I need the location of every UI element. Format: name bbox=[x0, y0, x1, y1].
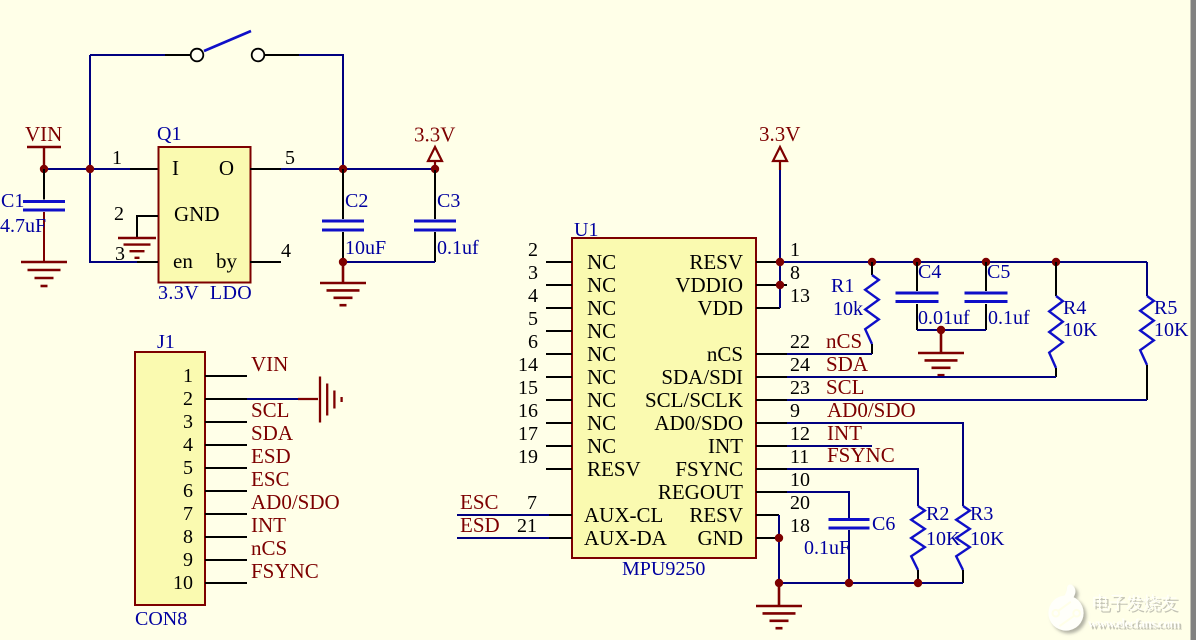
wire: left riser from switch to en pin bbox=[90, 55, 137, 262]
J1 pin 2 stub bbox=[205, 398, 247, 400]
U1 pin 6 stub bbox=[546, 353, 572, 355]
wire to 3.3V bbox=[343, 168, 435, 170]
svg-text:NC: NC bbox=[587, 319, 616, 343]
junction pin18 bbox=[775, 534, 783, 542]
svg-text:SCL/SCLK: SCL/SCLK bbox=[645, 388, 743, 412]
ground under C1 bbox=[21, 262, 67, 286]
svg-text:NC: NC bbox=[587, 388, 616, 412]
capacitor C4 bottom pin bbox=[916, 304, 918, 330]
capacitor C5 bottom pin bbox=[985, 304, 987, 330]
U1 pin 11 stub bbox=[756, 468, 787, 470]
svg-text:INT: INT bbox=[708, 434, 743, 458]
svg-text:1: 1 bbox=[112, 147, 122, 169]
svg-text:nCS: nCS bbox=[826, 329, 862, 353]
svg-text:VIN: VIN bbox=[25, 122, 62, 146]
svg-text:10: 10 bbox=[173, 572, 193, 594]
U1 pin 16 stub bbox=[546, 422, 572, 424]
capacitor C2 top pin bbox=[342, 169, 344, 219]
svg-text:19: 19 bbox=[518, 446, 538, 468]
resistor R1 top pin bbox=[871, 262, 873, 275]
svg-text:18: 18 bbox=[790, 515, 810, 537]
svg-text:14: 14 bbox=[518, 354, 538, 376]
svg-text:VDD: VDD bbox=[698, 296, 744, 320]
capacitor C4 bbox=[896, 293, 939, 302]
svg-text:2: 2 bbox=[183, 388, 193, 410]
resistor R3 bottom pin bbox=[962, 570, 964, 583]
wire REGOUT to C6 bbox=[787, 492, 849, 518]
resistor R5 bottom pin bbox=[1146, 365, 1148, 400]
J1 pin 10 stub bbox=[205, 582, 247, 584]
svg-text:INT: INT bbox=[251, 513, 286, 537]
wire 3.3V rail bbox=[780, 261, 1147, 263]
svg-text:C2: C2 bbox=[345, 190, 368, 212]
svg-text:R2: R2 bbox=[926, 503, 949, 525]
svg-text:NC: NC bbox=[587, 411, 616, 435]
ground at Q1 pin2 bbox=[118, 238, 156, 258]
svg-text:5: 5 bbox=[285, 147, 295, 169]
svg-text:3.3V: 3.3V bbox=[414, 123, 455, 147]
U1 pin 12 stub bbox=[756, 445, 787, 447]
resistor R3 bbox=[956, 506, 970, 570]
svg-text:0.1uf: 0.1uf bbox=[437, 237, 479, 259]
svg-text:NC: NC bbox=[587, 250, 616, 274]
wire: top rail to switch bbox=[90, 54, 165, 56]
svg-text:SDA/SDI: SDA/SDI bbox=[661, 365, 743, 389]
svg-text:17: 17 bbox=[518, 423, 538, 445]
svg-text:16: 16 bbox=[518, 400, 538, 422]
resistor R5 bbox=[1140, 296, 1154, 365]
watermark text dianzifashaoyou bbox=[1095, 596, 1111, 612]
resistor R1 bottom pin bbox=[871, 344, 873, 354]
svg-text:5: 5 bbox=[528, 308, 538, 330]
wire ground rail bbox=[779, 582, 963, 584]
power VIN bbox=[27, 147, 61, 169]
wire 3.3V riser bbox=[779, 170, 781, 262]
wire RESV20 to GND18 bbox=[778, 515, 780, 583]
J1 pin 4 stub bbox=[205, 444, 247, 446]
junction C6 bottom bbox=[845, 579, 853, 587]
svg-text:FSYNC: FSYNC bbox=[675, 457, 743, 481]
capacitor C5 top pin bbox=[985, 262, 987, 291]
svg-text:GND: GND bbox=[698, 526, 744, 550]
wire nCS net bbox=[787, 353, 872, 355]
svg-text:10uF: 10uF bbox=[345, 237, 386, 259]
ground at J1 pin2 bbox=[320, 377, 342, 423]
junction C4 top bbox=[913, 258, 921, 266]
wire INT net bbox=[787, 445, 872, 447]
svg-text:VIN: VIN bbox=[251, 352, 288, 376]
junction R2 bottom bbox=[914, 579, 922, 587]
U1 pin 9 stub bbox=[756, 422, 787, 424]
power 3.3V bbox=[428, 147, 442, 170]
svg-text:AD0/SDO: AD0/SDO bbox=[251, 490, 340, 514]
svg-text:21: 21 bbox=[517, 515, 537, 537]
svg-text:RESV: RESV bbox=[587, 457, 641, 481]
ground bottom right bbox=[756, 583, 802, 628]
svg-text:ESC: ESC bbox=[251, 467, 290, 491]
wire bbox=[457, 514, 549, 516]
wire SDA net bbox=[787, 376, 1056, 378]
svg-text:RESV: RESV bbox=[689, 503, 743, 527]
J1 pin 9 stub bbox=[205, 559, 247, 561]
junction pin1 bbox=[776, 258, 784, 266]
wire C1 to ground bbox=[43, 212, 45, 262]
switch S1 lever bbox=[204, 31, 251, 51]
svg-text:INT: INT bbox=[827, 421, 862, 445]
svg-text:RESV: RESV bbox=[689, 250, 743, 274]
switch S1 contacts bbox=[191, 49, 204, 62]
svg-text:ESD: ESD bbox=[251, 444, 291, 468]
J1 pin 1 stub bbox=[205, 375, 247, 377]
svg-text:AUX-DA: AUX-DA bbox=[584, 526, 668, 550]
resistor R4 top pin bbox=[1055, 262, 1057, 296]
J1 pin 6 stub bbox=[205, 490, 247, 492]
svg-text:9: 9 bbox=[183, 549, 193, 571]
svg-text:12: 12 bbox=[790, 423, 810, 445]
resistor R2 bottom pin bbox=[917, 570, 919, 583]
svg-text:3: 3 bbox=[528, 262, 538, 284]
svg-text:ESD: ESD bbox=[460, 513, 500, 537]
wire rail to R5 bbox=[1146, 262, 1148, 296]
svg-text:SCL: SCL bbox=[251, 398, 290, 422]
svg-text:SDA: SDA bbox=[251, 421, 294, 445]
svg-text:13: 13 bbox=[790, 285, 810, 307]
U1 pin 8 stub bbox=[756, 284, 787, 286]
junction C5 top bbox=[982, 258, 990, 266]
svg-text:MPU9250: MPU9250 bbox=[622, 558, 705, 580]
right scrollbar strip bbox=[1191, 0, 1196, 640]
svg-text:C6: C6 bbox=[872, 513, 895, 535]
svg-text:6: 6 bbox=[183, 480, 193, 502]
IC U1 box bbox=[572, 238, 756, 558]
svg-text:9: 9 bbox=[790, 400, 800, 422]
svg-text:AUX-CL: AUX-CL bbox=[584, 503, 663, 527]
switch S1 right pin bbox=[265, 54, 300, 56]
svg-text:0.1uF: 0.1uF bbox=[804, 537, 850, 559]
svg-text:nCS: nCS bbox=[251, 536, 287, 560]
svg-text:3.3V: 3.3V bbox=[759, 122, 800, 146]
svg-text:SCL: SCL bbox=[826, 375, 865, 399]
svg-text:NC: NC bbox=[587, 342, 616, 366]
svg-text:AD0/SDO: AD0/SDO bbox=[827, 398, 916, 422]
svg-text:2: 2 bbox=[528, 239, 538, 261]
junction R4 top bbox=[1052, 258, 1060, 266]
svg-text:R3: R3 bbox=[970, 503, 993, 525]
wire C6 bottom to ground rail bbox=[848, 530, 850, 583]
svg-text:R5: R5 bbox=[1154, 297, 1177, 319]
U1 pin 18 stub bbox=[756, 537, 779, 539]
junction pin8 bbox=[776, 281, 784, 289]
U1 pin 14 stub bbox=[546, 376, 572, 378]
svg-text:R4: R4 bbox=[1063, 297, 1086, 319]
power 3.3V bbox=[773, 147, 787, 170]
svg-text:15: 15 bbox=[518, 377, 538, 399]
svg-text:by: by bbox=[216, 249, 238, 273]
U1 pin 17 stub bbox=[546, 445, 572, 447]
svg-text:10k: 10k bbox=[833, 298, 863, 320]
Q1 pin 3 stub bbox=[137, 261, 158, 263]
U1 pin 1 stub bbox=[756, 261, 787, 263]
junction C2 top bbox=[339, 165, 347, 173]
svg-text:6: 6 bbox=[528, 331, 538, 353]
svg-text:7: 7 bbox=[183, 503, 193, 525]
resistor R1 bbox=[865, 275, 879, 344]
junction VIN/C1 bbox=[40, 165, 48, 173]
svg-text:Q1: Q1 bbox=[157, 123, 181, 145]
wire J1 pin2 to ground bbox=[247, 398, 298, 400]
svg-text:4: 4 bbox=[528, 285, 538, 307]
svg-text:0.01uf: 0.01uf bbox=[918, 307, 970, 329]
svg-text:SDA: SDA bbox=[826, 352, 869, 376]
svg-text:FSYNC: FSYNC bbox=[251, 559, 319, 583]
wire to VDDIO/VDD bbox=[779, 262, 781, 308]
junction C2 bottom bbox=[339, 258, 347, 266]
J1 pin 8 stub bbox=[205, 536, 247, 538]
capacitor C4 top pin bbox=[916, 262, 918, 291]
ground under C4/C5 bbox=[918, 330, 964, 375]
wire Q1 out bbox=[281, 168, 343, 170]
svg-text:I: I bbox=[172, 156, 179, 180]
capacitor C3 top pin bbox=[434, 169, 436, 219]
wire VIN to Q1 pin1 bbox=[44, 168, 130, 170]
U1 pin 23 stub bbox=[756, 399, 787, 401]
svg-text:7: 7 bbox=[527, 492, 537, 514]
ground stem at J1 pin2 bbox=[298, 398, 318, 400]
pin bbox=[549, 537, 572, 539]
svg-text:3: 3 bbox=[115, 243, 125, 265]
svg-text:www.elecfans.com: www.elecfans.com bbox=[1088, 616, 1180, 631]
wire FSYNC net bbox=[787, 469, 918, 506]
svg-text:NC: NC bbox=[587, 273, 616, 297]
svg-text:10K: 10K bbox=[970, 528, 1005, 550]
svg-text:AD0/SDO: AD0/SDO bbox=[654, 411, 743, 435]
svg-text:23: 23 bbox=[790, 377, 810, 399]
junction riser bbox=[86, 165, 94, 173]
U1 pin 10 stub bbox=[756, 491, 787, 493]
svg-text:REGOUT: REGOUT bbox=[658, 480, 743, 504]
svg-text:4: 4 bbox=[281, 240, 291, 262]
U1 pin 13 stub bbox=[756, 307, 780, 309]
wire: switch to C2/3.3V node bbox=[299, 55, 343, 169]
resistor R4 bbox=[1049, 296, 1063, 368]
svg-text:5: 5 bbox=[183, 457, 193, 479]
Q1 pin 5 stub bbox=[250, 168, 281, 170]
svg-text:10: 10 bbox=[790, 469, 810, 491]
capacitor C6 bbox=[829, 520, 870, 529]
svg-text:U1: U1 bbox=[574, 219, 598, 241]
junction C4/C5 gnd bbox=[937, 326, 945, 334]
capacitor C2 bottom pin bbox=[342, 232, 344, 262]
U1 pin 15 stub bbox=[546, 399, 572, 401]
svg-text:4: 4 bbox=[183, 434, 193, 456]
svg-text:8: 8 bbox=[183, 526, 193, 548]
U1 pin 2 stub bbox=[546, 261, 572, 263]
svg-text:NC: NC bbox=[587, 434, 616, 458]
svg-text:en: en bbox=[173, 249, 193, 273]
svg-text:ESC: ESC bbox=[460, 490, 499, 514]
resistor R4 bottom pin bbox=[1055, 368, 1057, 377]
svg-text:22: 22 bbox=[790, 331, 810, 353]
wire C2-C3 bottom bbox=[343, 261, 435, 263]
svg-text:3: 3 bbox=[183, 411, 193, 433]
U1 pin 24 stub bbox=[756, 376, 787, 378]
svg-text:4.7uF: 4.7uF bbox=[0, 215, 46, 237]
svg-text:20: 20 bbox=[790, 492, 810, 514]
junction R1 top bbox=[868, 258, 876, 266]
capacitor C5 bbox=[965, 293, 1008, 302]
connector J1 box bbox=[135, 352, 205, 605]
svg-text:GND: GND bbox=[174, 202, 220, 226]
svg-text:24: 24 bbox=[790, 354, 810, 376]
svg-text:FSYNC: FSYNC bbox=[827, 443, 895, 467]
svg-text:10K: 10K bbox=[1063, 319, 1098, 341]
wire AD0/SDO net bbox=[787, 423, 963, 506]
svg-text:0.1uf: 0.1uf bbox=[988, 307, 1030, 329]
U1 pin 4 stub bbox=[546, 307, 572, 309]
watermark logo elecfans bbox=[1048, 584, 1083, 630]
junction C3 top bbox=[431, 165, 439, 173]
svg-text:C3: C3 bbox=[437, 190, 460, 212]
switch S1 left pin bbox=[165, 54, 191, 56]
junction gnd rail left bbox=[775, 579, 783, 587]
capacitor C1 top pin bbox=[43, 169, 45, 200]
svg-text:1: 1 bbox=[790, 239, 800, 261]
svg-text:2: 2 bbox=[114, 203, 124, 225]
svg-text:C5: C5 bbox=[987, 261, 1010, 283]
wire SCL net bbox=[787, 399, 1147, 401]
J1 pin 7 stub bbox=[205, 513, 247, 515]
svg-text:O: O bbox=[219, 156, 234, 180]
Q1 pin 4 stub bbox=[250, 261, 281, 263]
U1 pin 19 stub bbox=[546, 468, 572, 470]
svg-text:J1: J1 bbox=[157, 331, 175, 353]
ground under C2 bbox=[320, 262, 366, 305]
J1 pin 3 stub bbox=[205, 421, 247, 423]
svg-text:C4: C4 bbox=[918, 261, 941, 283]
svg-text:1: 1 bbox=[183, 365, 193, 387]
svg-text:11: 11 bbox=[790, 446, 809, 468]
svg-text:8: 8 bbox=[790, 262, 800, 284]
svg-text:NC: NC bbox=[587, 296, 616, 320]
U1 pin 3 stub bbox=[546, 284, 572, 286]
wire bbox=[457, 537, 549, 539]
wire C4-C5 bottom bbox=[917, 329, 986, 331]
resistor R2 bbox=[911, 506, 925, 570]
Q1 pin 2 GND wire bbox=[137, 216, 158, 238]
capacitor C2 bbox=[322, 221, 364, 230]
svg-text:NC: NC bbox=[587, 365, 616, 389]
svg-text:10K: 10K bbox=[1154, 319, 1189, 341]
pin bbox=[549, 514, 572, 516]
svg-text:VDDIO: VDDIO bbox=[675, 273, 743, 297]
capacitor C1 bbox=[23, 202, 65, 211]
U1 pin 20 stub bbox=[756, 514, 779, 516]
svg-text:CON8: CON8 bbox=[135, 608, 187, 630]
svg-text:3.3V LDO: 3.3V LDO bbox=[158, 282, 252, 304]
U1 pin 22 stub bbox=[756, 353, 787, 355]
J1 pin 5 stub bbox=[205, 467, 247, 469]
svg-text:R1: R1 bbox=[831, 275, 854, 297]
capacitor C3 bbox=[414, 221, 456, 230]
Q1 pin 1 stub bbox=[130, 168, 158, 170]
svg-text:C1: C1 bbox=[1, 190, 24, 212]
svg-text:nCS: nCS bbox=[707, 342, 743, 366]
LDO U Q1 box bbox=[159, 147, 251, 283]
capacitor C3 bottom pin bbox=[434, 232, 436, 262]
U1 pin 5 stub bbox=[546, 330, 572, 332]
